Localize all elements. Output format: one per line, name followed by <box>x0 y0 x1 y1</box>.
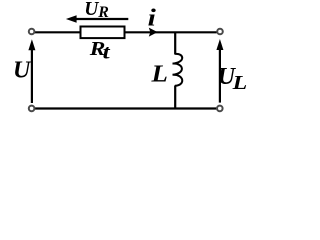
wire top right (resistor to right terminal) <box>124 31 217 33</box>
arrow UR (head, points left) <box>66 15 77 22</box>
svg-text:U: U <box>13 57 32 83</box>
svg-text:R: R <box>97 4 109 21</box>
arrow UL right (shaft) <box>219 49 221 103</box>
inductor L coil (3 turns) <box>173 54 183 86</box>
resistor Rt (body) <box>81 27 125 39</box>
terminal top-right <box>217 29 223 35</box>
wire top left (terminal to resistor) <box>35 31 82 33</box>
wire bottom <box>35 107 217 109</box>
terminal bottom-right <box>217 106 223 112</box>
arrow U left (shaft) <box>31 49 33 103</box>
svg-text:L: L <box>150 62 168 88</box>
svg-text:i: i <box>148 6 157 32</box>
arrow UR (shaft) <box>72 18 128 20</box>
arrow U left (head, points up) <box>28 39 35 50</box>
inductor L branch: lower wire <box>174 86 176 110</box>
arrow UL right (head, points up) <box>216 39 223 50</box>
svg-text:L: L <box>231 73 247 94</box>
svg-text:U: U <box>84 0 99 20</box>
terminal top-left <box>29 29 35 35</box>
inductor L branch: upper wire <box>174 32 176 55</box>
terminal bottom-left <box>29 106 35 112</box>
arrow i (head on top wire, points right) <box>149 28 158 37</box>
